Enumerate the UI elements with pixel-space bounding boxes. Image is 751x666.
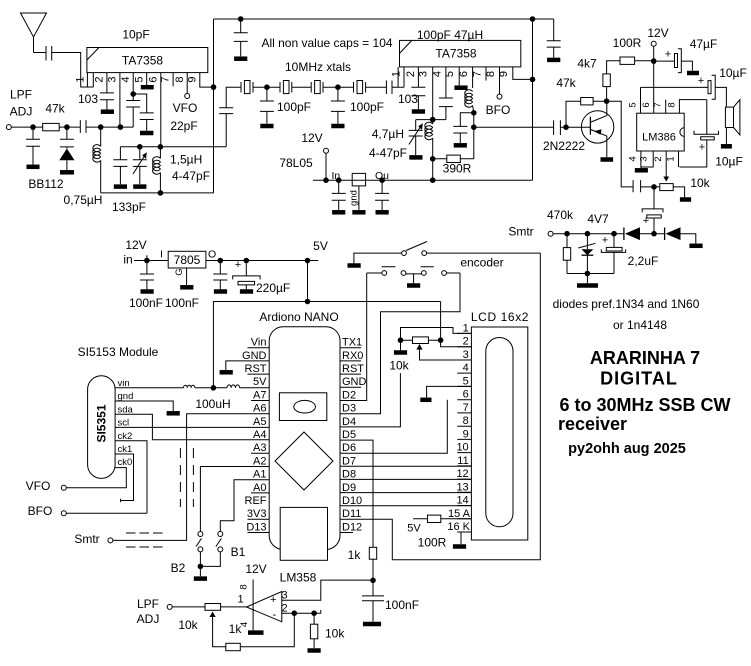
svg-text:12V: 12V <box>125 238 146 252</box>
svg-text:8: 8 <box>666 102 677 107</box>
crystal X1 <box>241 82 253 93</box>
wire 5V to lcd pin2 <box>441 302 472 347</box>
svg-text:D8: D8 <box>342 469 356 481</box>
node BFO terminal <box>497 94 502 99</box>
ground 22pF cap <box>140 131 153 136</box>
crystal X2 <box>280 82 292 93</box>
svg-text:47k: 47k <box>45 102 65 116</box>
node input cap junction <box>30 124 36 130</box>
svg-text:Smtr: Smtr <box>74 532 99 546</box>
node contrast pot left <box>398 337 404 343</box>
wire encoder B to D3 <box>447 272 461 274</box>
wiper to lcd pin3 <box>416 344 422 350</box>
wire encoder A to D2 <box>367 272 382 274</box>
op-amp U1 TA7358 mixer box <box>87 48 208 73</box>
node Smtr det terminal <box>548 231 553 236</box>
pin 8 U3 <box>679 100 706 114</box>
node volume pot input <box>651 184 657 190</box>
node 5V distribution <box>305 299 311 305</box>
svg-text:2N2222: 2N2222 <box>543 139 585 153</box>
capacitor input to ground <box>26 127 40 164</box>
svg-text:9: 9 <box>186 76 198 82</box>
svg-text:ck2: ck2 <box>118 431 133 442</box>
svg-text:10k: 10k <box>325 627 345 641</box>
svg-text:BB112: BB112 <box>28 177 63 191</box>
svg-text:2: 2 <box>94 76 106 82</box>
wire lcd pin16 to ground <box>461 532 471 544</box>
svg-text:Ardiono NANO: Ardiono NANO <box>259 310 338 324</box>
svg-text:GND: GND <box>342 376 367 388</box>
node inductor junction <box>98 124 104 130</box>
svg-text:4: 4 <box>431 71 443 77</box>
node vin 5V junction <box>211 385 217 391</box>
diode D1 <box>623 228 625 241</box>
capacitor LM386 input coupling <box>633 180 660 192</box>
svg-text:LM358: LM358 <box>280 571 317 585</box>
svg-text:100R: 100R <box>613 36 642 50</box>
ground right decoupling <box>547 58 560 63</box>
svg-text:+: + <box>270 594 276 606</box>
op-amp U3 LM386 box <box>637 113 685 151</box>
capacitor 100nF input <box>140 261 154 290</box>
svg-text:or 1n4148: or 1n4148 <box>613 318 667 332</box>
svg-text:10MHz xtals: 10MHz xtals <box>285 60 351 74</box>
resistor 1k feedback <box>226 643 241 650</box>
wire Q1 collector to LM386 input <box>607 101 634 187</box>
node zener top <box>585 231 591 237</box>
svg-text:D2: D2 <box>342 389 356 401</box>
svg-text:10µF: 10µF <box>715 155 743 169</box>
svg-text:8: 8 <box>174 76 186 82</box>
op-amp U2 TA7358 product detector box <box>400 40 521 67</box>
ground volume pot <box>680 197 691 202</box>
resistor 100R <box>620 57 635 64</box>
svg-text:RX0: RX0 <box>342 350 363 362</box>
svg-text:10k: 10k <box>178 618 198 632</box>
capacitor 100pF B <box>331 87 345 124</box>
inductor 4.7uH U2 <box>432 120 434 124</box>
capacitor 10uF gain pins 1-8 <box>706 100 708 135</box>
node BFO tank junction <box>471 110 477 116</box>
usb connector <box>279 393 326 421</box>
ground 100pF A <box>260 124 273 129</box>
node 12V terminal 78L05 <box>324 148 329 153</box>
pin 1 <box>87 73 93 87</box>
node top rail right <box>530 16 536 22</box>
pin 5 U3 <box>640 87 642 113</box>
svg-text:REF: REF <box>245 495 267 507</box>
svg-text:100pF: 100pF <box>277 100 311 114</box>
pin 7 U2 <box>485 67 487 81</box>
node 470k top <box>564 231 570 237</box>
ground 78L05 input cap <box>332 210 345 215</box>
svg-text:4-47pF: 4-47pF <box>369 146 407 160</box>
svg-text:in: in <box>123 253 132 267</box>
svg-text:6: 6 <box>458 71 470 77</box>
wire lcd pin5 to ground <box>427 386 472 397</box>
resistor 1k from D5 <box>369 547 376 559</box>
svg-text:+: + <box>665 49 671 61</box>
capacitor 103 U2 <box>411 87 425 109</box>
wire 9V rail 78L05 <box>313 179 533 181</box>
svg-text:VFO: VFO <box>173 101 198 115</box>
wire BFO output line <box>474 126 554 128</box>
svg-text:100R: 100R <box>418 536 447 550</box>
node top rail cap <box>238 16 244 22</box>
svg-text:A6: A6 <box>253 403 266 415</box>
svg-text:2,2uF: 2,2uF <box>628 254 659 268</box>
wire U2 right riser <box>532 19 534 180</box>
svg-text:BFO: BFO <box>28 504 53 518</box>
svg-text:2: 2 <box>653 156 664 161</box>
node LPF ADJ terminal <box>167 604 172 609</box>
wire smtr bottom rail <box>567 273 614 275</box>
switch encoder push <box>402 251 407 256</box>
svg-text:1k: 1k <box>229 622 243 636</box>
svg-text:103: 103 <box>78 92 98 106</box>
wire 5V to vin node <box>213 302 307 388</box>
node smtr ground <box>585 271 591 277</box>
ground 100pF B <box>331 124 344 129</box>
svg-text:ADJ: ADJ <box>137 612 160 626</box>
module U5 Arduino NANO body <box>269 327 340 550</box>
pin 3 <box>119 73 121 128</box>
svg-text:100pF: 100pF <box>350 100 384 114</box>
module LCD box <box>471 327 527 540</box>
svg-text:O: O <box>208 249 216 261</box>
svg-text:7: 7 <box>471 71 483 77</box>
wire tank top U2 <box>416 119 446 121</box>
capacitor 47uF <box>654 60 675 62</box>
node 7805 out junction <box>218 258 224 264</box>
svg-text:A3: A3 <box>253 442 266 454</box>
node coil top <box>158 144 164 150</box>
svg-text:8: 8 <box>239 584 250 589</box>
svg-text:3V3: 3V3 <box>247 508 267 520</box>
svg-text:5V: 5V <box>407 523 421 535</box>
svg-text:100nF: 100nF <box>385 598 419 612</box>
svg-text:8: 8 <box>463 415 469 427</box>
node 5V junction <box>305 258 311 264</box>
svg-text:RST: RST <box>342 363 364 375</box>
pin 2 <box>106 73 108 93</box>
wire BFO to ck2 <box>66 512 147 514</box>
svg-text:8: 8 <box>485 71 497 77</box>
varicap BB112 <box>60 127 74 148</box>
resistor 470k <box>566 234 568 274</box>
ground lcd pin16 <box>453 544 466 549</box>
ground trimmer U2 <box>409 155 422 160</box>
node pin4 <box>130 91 136 97</box>
capacitor 2.2uF smtr coupling <box>653 187 655 209</box>
svg-text:+: + <box>643 215 649 227</box>
ground 100nF output <box>214 289 227 294</box>
svg-text:100uH: 100uH <box>195 397 230 411</box>
svg-text:TA7358: TA7358 <box>435 47 476 61</box>
svg-text:390R: 390R <box>443 162 472 176</box>
node U2 tank top <box>430 117 436 123</box>
svg-text:In: In <box>332 170 341 182</box>
node pin3 junction <box>118 124 124 130</box>
svg-text:TX1: TX1 <box>342 337 362 349</box>
svg-text:13: 13 <box>456 481 468 493</box>
capacitor 22pF coupling to xtal <box>219 87 241 147</box>
node VFO output terminal <box>185 94 190 99</box>
svg-text:+: + <box>235 259 241 271</box>
ground BFO cap <box>454 143 467 148</box>
svg-text:ck1: ck1 <box>118 444 133 455</box>
wire antenna to cap <box>34 52 47 54</box>
inductor 1.5uH <box>159 147 161 159</box>
capacitor 78L05 output <box>375 180 389 210</box>
svg-text:11: 11 <box>457 455 468 467</box>
node pin9 junction <box>211 84 217 90</box>
ground pin5 <box>141 85 154 90</box>
lcd pin stubs 1-16 <box>457 333 471 532</box>
capacitor BFO coupling to Q1 <box>554 120 591 135</box>
wire input line <box>11 126 42 128</box>
button B1 <box>218 532 223 537</box>
svg-text:6 to 30MHz SSB CW: 6 to 30MHz SSB CW <box>559 395 730 415</box>
ground gnd U4 <box>167 411 180 416</box>
svg-text:GND: GND <box>242 350 267 362</box>
svg-text:9: 9 <box>498 71 510 77</box>
transistor Q1 2N2222 <box>581 111 613 143</box>
svg-text:4: 4 <box>628 156 639 161</box>
node 12V in junction <box>144 258 150 264</box>
wire pin9 riser to top rail and down to tank bottom <box>213 19 215 193</box>
antenna <box>21 13 47 53</box>
svg-text:D13: D13 <box>246 521 266 533</box>
svg-text:All non value caps = 104: All non value caps = 104 <box>261 36 392 50</box>
svg-text:1k: 1k <box>348 548 362 562</box>
capacitor 2.2uF smoothing <box>613 234 615 248</box>
svg-text:220µF: 220µF <box>256 281 290 295</box>
svg-text:103: 103 <box>398 92 418 106</box>
svg-text:10k: 10k <box>389 359 409 373</box>
svg-text:RST: RST <box>245 363 267 375</box>
svg-text:4: 4 <box>120 76 132 82</box>
svg-text:LPF: LPF <box>137 597 159 611</box>
svg-text:10µF: 10µF <box>719 66 747 80</box>
ground encoder <box>407 283 420 288</box>
resistor 47k LPF <box>43 123 60 130</box>
trimmer 4-47pF U2 <box>409 120 423 156</box>
pin 5 U2 <box>458 67 460 86</box>
svg-text:A0: A0 <box>253 482 266 494</box>
node 10k junction <box>311 610 317 616</box>
ground BB112 <box>60 170 74 175</box>
svg-text:9: 9 <box>463 428 469 440</box>
svg-text:+: + <box>699 142 705 154</box>
capacitor 100pF A <box>260 87 274 124</box>
pin 4 U2 <box>445 67 447 98</box>
svg-text:A7: A7 <box>253 389 266 401</box>
pin 6 U2 <box>472 67 474 88</box>
pin 3 U2 <box>432 67 434 120</box>
potentiometer 10k contrast <box>401 339 441 341</box>
svg-text:1,5µH: 1,5µH <box>170 153 202 167</box>
svg-text:100pF 47µH: 100pF 47µH <box>417 28 483 42</box>
node BFO terminal <box>61 511 66 516</box>
node buttons junction <box>198 564 204 570</box>
svg-text:-: - <box>273 609 277 621</box>
resistor 47k feedback <box>566 101 607 127</box>
inductor 47uH U2 <box>465 90 473 108</box>
ground input cap <box>27 165 40 170</box>
wiper LPF pot <box>210 612 216 618</box>
ground 78L05 <box>352 210 365 215</box>
ground Q1 emitter <box>601 157 614 162</box>
resistor 10k to ground <box>313 613 315 648</box>
resistor 390R <box>433 158 474 160</box>
svg-text:5: 5 <box>463 375 469 387</box>
svg-text:Smtr: Smtr <box>508 225 533 239</box>
svg-text:BFO: BFO <box>486 103 511 117</box>
capacitor 22pF node4 to ground <box>133 94 154 131</box>
wire encoder common ground <box>406 274 421 283</box>
icsp diamond <box>275 432 333 490</box>
capacitor 100nF output <box>213 261 227 290</box>
wire buttons to ground <box>200 552 220 576</box>
svg-text:A4: A4 <box>253 429 266 441</box>
svg-text:D4: D4 <box>342 416 356 428</box>
ground smtr <box>577 283 598 288</box>
pin 6 <box>160 73 162 147</box>
svg-text:D12: D12 <box>342 521 362 533</box>
wire diode row <box>553 233 624 235</box>
svg-text:5: 5 <box>628 102 639 107</box>
resistor 4k7 <box>607 61 620 101</box>
capacitor antenna coupling <box>46 46 52 61</box>
svg-text:7: 7 <box>653 102 664 107</box>
potentiometer 10k LPF <box>172 606 246 608</box>
potentiometer 10k volume <box>660 184 673 191</box>
node trimmer top <box>137 144 143 150</box>
svg-text:Vin: Vin <box>251 337 267 349</box>
svg-text:3: 3 <box>463 349 469 361</box>
ground lcd pin5 <box>420 398 431 403</box>
wire 5V rail <box>206 260 318 262</box>
svg-text:D7: D7 <box>342 455 356 467</box>
svg-text:4k7: 4k7 <box>577 57 597 71</box>
svg-text:10: 10 <box>456 442 468 454</box>
svg-text:D3: D3 <box>342 403 356 415</box>
wire top supply rail <box>214 18 554 20</box>
svg-text:6: 6 <box>147 76 159 82</box>
ground pins 3-4 <box>635 168 648 173</box>
node LPF ADJ input terminal <box>6 125 11 130</box>
svg-text:receiver: receiver <box>558 414 627 434</box>
pin 4 <box>132 73 134 94</box>
svg-text:2: 2 <box>405 71 417 77</box>
op-amp U6 LM358 triangle <box>247 592 282 622</box>
wire -input row <box>282 610 321 613</box>
ground buttons <box>194 576 207 581</box>
ground pin4 U6 <box>248 630 264 635</box>
svg-text:6: 6 <box>641 102 652 107</box>
svg-text:+: + <box>602 235 608 247</box>
svg-text:sda: sda <box>118 404 134 415</box>
svg-text:1: 1 <box>463 322 469 334</box>
inductor vin choke <box>184 385 195 388</box>
ground diode D2 <box>689 244 702 249</box>
module U4 SI5351 body <box>88 376 116 479</box>
svg-text:4: 4 <box>463 362 469 374</box>
svg-text:3: 3 <box>639 156 650 161</box>
capacitor top rail right decoupling <box>547 19 561 58</box>
node BFO output <box>473 113 475 159</box>
svg-text:1: 1 <box>391 71 403 77</box>
svg-text:D5: D5 <box>342 429 356 441</box>
capacitor 103 pin2 <box>100 93 114 110</box>
pin 8 U2 <box>499 67 501 94</box>
pin 1 U3 <box>678 151 680 167</box>
node U2 tank bottom <box>430 156 436 162</box>
svg-text:D9: D9 <box>342 482 356 494</box>
node Q1 base junction <box>563 124 569 130</box>
node BB112 junction <box>64 124 70 130</box>
ground 100nF comparator <box>363 622 381 627</box>
pin 2 U2 <box>417 67 419 87</box>
svg-text:7: 7 <box>160 76 172 82</box>
diode zener 4V7 <box>586 234 588 250</box>
pin 7 <box>172 73 174 87</box>
ground trimmer <box>133 184 146 189</box>
node 12V junction <box>323 177 329 183</box>
svg-text:10pF: 10pF <box>122 28 149 42</box>
svg-text:10k: 10k <box>690 176 710 190</box>
pin 2 U3 wiper arrow <box>665 151 667 178</box>
capacitor coupling to mixer <box>80 120 133 133</box>
node 220uF junction <box>244 258 250 264</box>
ground 47uF <box>687 71 699 76</box>
pin 9 <box>200 73 214 88</box>
ground 10k <box>308 648 321 653</box>
svg-text:5V: 5V <box>253 376 267 388</box>
svg-text:I: I <box>160 249 163 261</box>
svg-text:2: 2 <box>463 336 469 348</box>
node Ou junction <box>379 177 385 183</box>
svg-text:47k: 47k <box>556 76 576 90</box>
svg-text:78L05: 78L05 <box>279 156 313 170</box>
svg-text:6: 6 <box>463 389 469 401</box>
svg-text:470k: 470k <box>547 208 574 222</box>
svg-text:SI5351: SI5351 <box>95 404 109 442</box>
svg-text:D11: D11 <box>342 508 361 520</box>
svg-text:encoder: encoder <box>460 256 503 270</box>
node diode junction <box>651 231 657 237</box>
capacitor top rail decoupling <box>234 19 248 56</box>
svg-text:LCD 16x2: LCD 16x2 <box>471 310 529 324</box>
node VFO terminal <box>61 485 66 490</box>
resistor 100R backlight <box>413 518 471 520</box>
wire 5V down <box>307 261 309 302</box>
capacitor pin4 U2 <box>439 98 453 120</box>
svg-text:3: 3 <box>417 71 429 77</box>
svg-text:4,7µH: 4,7µH <box>372 127 404 141</box>
svg-text:1: 1 <box>75 76 87 82</box>
wire 12V input <box>134 255 168 260</box>
svg-text:5: 5 <box>133 76 145 82</box>
svg-text:VFO: VFO <box>26 479 51 493</box>
encoder contacts <box>382 271 387 276</box>
ground 103 U2 <box>412 109 425 114</box>
svg-text:7805: 7805 <box>174 253 201 267</box>
svg-text:SI5153 Module: SI5153 Module <box>78 345 159 359</box>
pin 7 U3 <box>665 100 667 114</box>
ground top rail cap <box>234 56 247 61</box>
